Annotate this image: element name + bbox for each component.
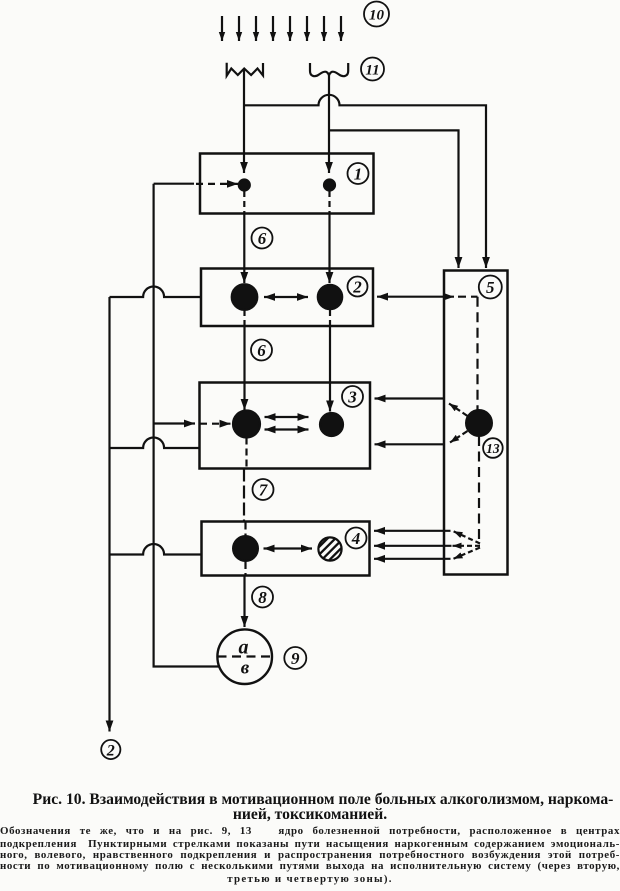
svg-text:5: 5 [486,278,495,297]
svg-text:в: в [241,658,250,679]
svg-text:2: 2 [352,278,362,297]
svg-text:a: a [239,637,249,659]
svg-text:4: 4 [351,529,361,548]
svg-text:11: 11 [365,63,379,79]
svg-text:6: 6 [258,229,267,248]
svg-text:6: 6 [257,341,266,360]
svg-text:7: 7 [259,481,269,500]
svg-text:9: 9 [291,649,300,668]
svg-text:1: 1 [354,165,363,184]
svg-text:3: 3 [347,388,357,407]
svg-text:8: 8 [258,588,267,607]
svg-text:10: 10 [369,8,385,24]
svg-text:13: 13 [486,441,500,456]
svg-text:2: 2 [106,743,115,760]
